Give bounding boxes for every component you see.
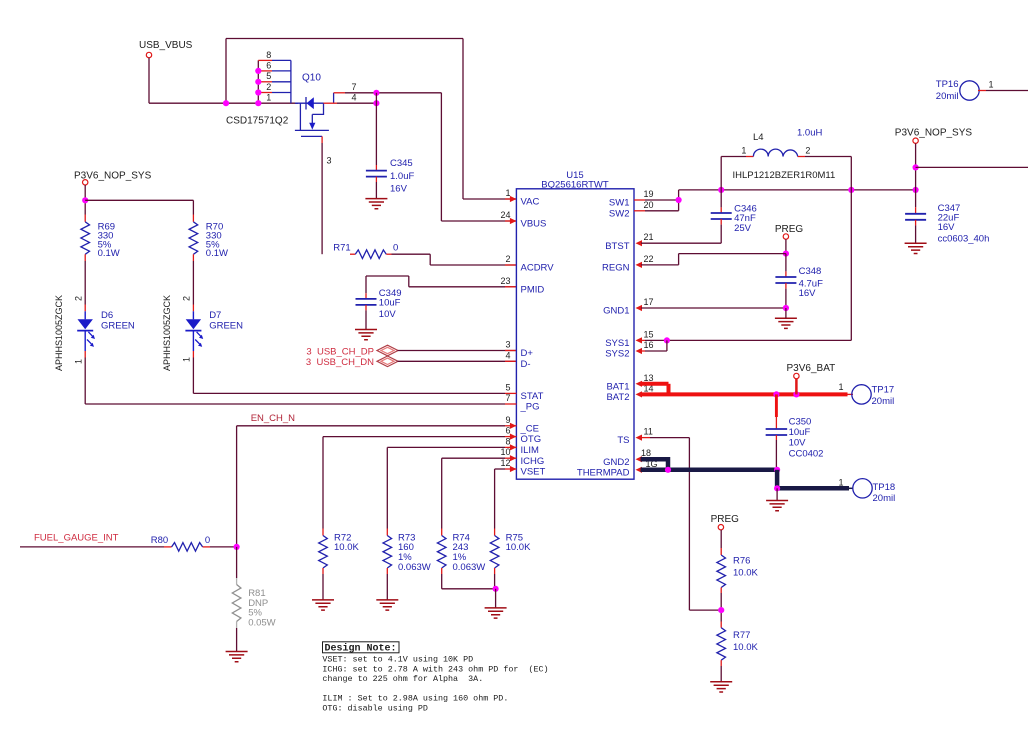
- svg-text:VSET: VSET: [521, 467, 546, 478]
- svg-text:SW2: SW2: [609, 208, 630, 219]
- svg-text:12: 12: [500, 458, 510, 468]
- svg-text:APHHS1005ZGCK: APHHS1005ZGCK: [162, 295, 172, 371]
- svg-text:R80: R80: [151, 535, 168, 546]
- svg-text:10.0K: 10.0K: [506, 542, 531, 553]
- resistor R76: [717, 555, 726, 588]
- svg-text:25V: 25V: [734, 223, 752, 234]
- node junction R80/R81: [234, 544, 240, 550]
- wire BAT1 riser thick: [667, 384, 671, 395]
- svg-text:5: 5: [266, 71, 271, 81]
- wire PREG to REGN node: [785, 239, 787, 253]
- node junction R74/R75 ground: [493, 586, 499, 592]
- wire EN_CH_N drop to R80 node: [236, 426, 238, 547]
- node junction top riser: [223, 100, 229, 106]
- wire TS pin11: [641, 437, 651, 439]
- svg-text:20mil: 20mil: [873, 493, 896, 504]
- svg-text:8: 8: [505, 436, 510, 446]
- svg-text:10uF: 10uF: [789, 427, 811, 438]
- svg-text:P3V6_NOP_SYS: P3V6_NOP_SYS: [895, 127, 973, 138]
- svg-text:USB_VBUS: USB_VBUS: [139, 40, 193, 51]
- wire down to ground: [776, 488, 778, 500]
- svg-text:change to 225 ohm for Alpha 3: change to 225 ohm for Alpha 3A.: [322, 674, 483, 684]
- svg-text:D7: D7: [209, 310, 221, 321]
- capacitor C350: [766, 429, 788, 470]
- svg-text:0: 0: [393, 243, 398, 254]
- svg-text:D-: D-: [521, 359, 531, 370]
- label R69 values: [98, 222, 120, 260]
- test point TP16: [960, 81, 979, 100]
- svg-text:VBUS: VBUS: [521, 219, 547, 230]
- svg-text:0.05W: 0.05W: [248, 617, 275, 628]
- svg-text:16V: 16V: [390, 184, 408, 195]
- svg-text:STAT: STAT: [521, 391, 544, 402]
- label C347 values: [938, 203, 990, 245]
- wire R71 to ACDRV pin2: [392, 253, 431, 255]
- svg-text:THERMPAD: THERMPAD: [577, 467, 630, 478]
- wire PMID to C349: [366, 275, 409, 277]
- node junction LED rail: [82, 197, 88, 203]
- svg-text:PREG: PREG: [775, 224, 804, 235]
- labels U15 right pin numbers: [641, 189, 658, 469]
- svg-text:1: 1: [741, 145, 746, 155]
- svg-text:IHLP1212BZER1R0M11: IHLP1212BZER1R0M11: [733, 170, 836, 181]
- svg-text:ACDRV: ACDRV: [521, 263, 555, 274]
- wire to ground: [495, 589, 497, 608]
- svg-text:_CE: _CE: [520, 423, 539, 434]
- wire SYS1 pin15: [642, 339, 645, 341]
- wire drop to VBUS pin24: [440, 93, 442, 221]
- svg-text:VAC: VAC: [521, 197, 540, 208]
- svg-text:1: 1: [838, 382, 843, 392]
- svg-text:1: 1: [266, 93, 271, 103]
- wire TS to R76/R77 junction: [689, 609, 721, 611]
- svg-text:20mil: 20mil: [872, 396, 895, 407]
- svg-text:SYS2: SYS2: [605, 349, 629, 360]
- wire D7 to STAT pin5: [192, 351, 194, 358]
- svg-text:23: 23: [500, 276, 510, 286]
- svg-text:3 USB_CH_DP: 3 USB_CH_DP: [306, 346, 374, 357]
- resistor R72: [322, 437, 324, 529]
- test point TP17: [852, 385, 871, 404]
- resistor R75: [494, 469, 496, 529]
- node junction SYS: [664, 337, 670, 343]
- ground below C345: [365, 199, 387, 209]
- ground below R73: [376, 600, 398, 610]
- svg-text:1: 1: [505, 188, 510, 198]
- capacitor C348: [775, 254, 796, 308]
- svg-text:11: 11: [644, 427, 653, 437]
- svg-text:2: 2: [182, 296, 192, 301]
- wire FUEL_GAUGE_INT: [20, 546, 164, 548]
- label R76 values: [733, 556, 758, 579]
- svg-text:0: 0: [205, 535, 210, 546]
- wire THERMPAD thick: [641, 468, 778, 473]
- svg-text:3: 3: [505, 340, 510, 350]
- ground below R77: [710, 682, 732, 692]
- wire riser to top rail: [225, 39, 227, 104]
- svg-text:GREEN: GREEN: [209, 321, 243, 332]
- net USB_VBUS power flag: [139, 40, 193, 58]
- labels U15 right pin names: [577, 198, 630, 479]
- wire to TP18 thick: [777, 486, 849, 491]
- svg-text:FUEL_GAUGE_INT: FUEL_GAUGE_INT: [34, 532, 119, 543]
- svg-text:cc0603_40h: cc0603_40h: [938, 233, 990, 244]
- svg-text:7: 7: [351, 82, 356, 92]
- svg-text:10.0K: 10.0K: [733, 642, 758, 653]
- resistor R74: [441, 458, 443, 528]
- wire GND2 riser thick: [666, 457, 671, 470]
- label C345 values: [390, 158, 414, 195]
- ground below R72: [312, 600, 334, 610]
- svg-text:REGN: REGN: [602, 263, 630, 274]
- wire D6 to _PG pin7: [84, 351, 86, 358]
- svg-text:EN_CH_N: EN_CH_N: [251, 413, 295, 424]
- label R75 values: [506, 532, 531, 553]
- off-page connector USB_CH_DN: [377, 356, 398, 367]
- wire R72 to ground: [322, 568, 324, 574]
- svg-text:10.0K: 10.0K: [733, 568, 758, 579]
- wire ILIM pin to resistor: [387, 446, 505, 448]
- svg-text:BAT2: BAT2: [606, 392, 629, 403]
- svg-text:6: 6: [266, 60, 271, 70]
- wire PREG to R76: [720, 530, 722, 548]
- label R74 values: [453, 532, 486, 572]
- label C346 values: [734, 203, 757, 233]
- wire BAT down to C350: [775, 394, 778, 417]
- svg-text:20: 20: [644, 200, 654, 210]
- junction dots BAT node: [773, 391, 779, 397]
- svg-text:6: 6: [505, 426, 510, 436]
- node junction SW: [676, 197, 682, 203]
- wire down to C345: [375, 93, 377, 165]
- ground below C349: [355, 330, 377, 340]
- capacitor C347: [905, 207, 926, 243]
- svg-text:R76: R76: [733, 556, 750, 567]
- svg-text:Q10: Q10: [302, 73, 321, 84]
- svg-text:24: 24: [500, 210, 510, 220]
- wire TP18 stub: [849, 487, 853, 489]
- wire Q10 pin4 lead: [324, 102, 338, 104]
- wire down to R81: [236, 547, 238, 578]
- svg-text:GND2: GND2: [603, 457, 629, 468]
- wire SW riser: [678, 190, 680, 211]
- ground below R81: [226, 652, 248, 662]
- svg-text:C345: C345: [390, 158, 413, 169]
- svg-text:2: 2: [74, 296, 84, 301]
- svg-text:CC0402: CC0402: [789, 449, 824, 460]
- svg-text:10V: 10V: [789, 438, 807, 449]
- wire R75 to ground node: [494, 568, 496, 574]
- svg-text:4: 4: [505, 350, 510, 360]
- wire C346 to BTST pin21: [641, 242, 721, 244]
- svg-text:SW1: SW1: [609, 198, 630, 209]
- wire GND2 pin18 thick: [641, 457, 669, 462]
- label R73 values: [398, 532, 431, 572]
- svg-text:1: 1: [74, 359, 84, 364]
- svg-text:BQ25616RTWT: BQ25616RTWT: [541, 180, 609, 191]
- svg-text:16: 16: [644, 340, 654, 350]
- svg-text:10: 10: [500, 447, 510, 457]
- svg-text:GND1: GND1: [603, 306, 629, 317]
- ground below C347: [905, 243, 927, 253]
- wire P3V6 out to right edge: [916, 166, 1028, 168]
- svg-text:PREG: PREG: [711, 514, 740, 525]
- pin arrows U15 right side: [636, 240, 643, 473]
- wire R73 to ground: [386, 568, 388, 574]
- svg-text:TP17: TP17: [872, 384, 895, 395]
- svg-text:7: 7: [505, 393, 510, 403]
- wire TS drop: [688, 438, 690, 610]
- label R81 values gray: [248, 588, 275, 628]
- svg-text:3 USB_CH_DN: 3 USB_CH_DN: [306, 357, 374, 368]
- wire BAT1 pin13 thick: [641, 382, 669, 386]
- node junction TP18 branch: [774, 485, 780, 491]
- ground below R74/R75: [485, 608, 507, 618]
- wire P3V6 flag down: [915, 143, 917, 207]
- svg-text:2: 2: [805, 145, 810, 155]
- svg-text:5: 5: [505, 382, 510, 392]
- svg-text:0.1W: 0.1W: [206, 248, 228, 259]
- svg-text:15: 15: [644, 329, 654, 339]
- svg-text:ICHG: set to 2.78 A with 243 o: ICHG: set to 2.78 A with 243 ohm PD for …: [322, 664, 548, 674]
- wire LED rail horizontal: [85, 199, 193, 201]
- svg-text:D6: D6: [101, 310, 113, 321]
- svg-text:13: 13: [644, 373, 654, 383]
- capacitor C345: [366, 171, 387, 199]
- wire VAC pin1: [463, 198, 516, 200]
- junction dots node VBUS/C345: [373, 90, 379, 96]
- wire BAT2 pin14 thick: [641, 392, 848, 396]
- node junction R76/R77: [718, 607, 724, 613]
- transistor Q10 pin ladder pins 8 6 5 2 1: [258, 50, 291, 103]
- labels U15 left pin numbers: [500, 188, 510, 468]
- label C348 values: [799, 266, 823, 299]
- svg-text:P3V6_BAT: P3V6_BAT: [787, 363, 836, 374]
- svg-text:1: 1: [182, 357, 192, 362]
- svg-text:ILIM: ILIM: [521, 445, 540, 456]
- wire SW1 pin19: [634, 199, 645, 201]
- inductor L4: [721, 149, 851, 190]
- node junction PREG: [783, 251, 789, 257]
- svg-text:10uF: 10uF: [379, 297, 401, 308]
- svg-text:1: 1: [838, 477, 843, 487]
- wire R77 to ground: [720, 660, 722, 666]
- wire EN_CH_N to _CE pin9: [237, 425, 505, 427]
- svg-text:22: 22: [644, 254, 654, 264]
- svg-text:BAT1: BAT1: [606, 381, 629, 392]
- svg-text:OTG: OTG: [521, 434, 542, 445]
- junction dots SW node: [718, 187, 724, 193]
- svg-text:R71: R71: [333, 243, 350, 254]
- svg-text:16V: 16V: [938, 222, 956, 233]
- svg-text:2: 2: [266, 82, 271, 92]
- resistor R81 DNP gray: [232, 585, 241, 622]
- wire VSET pin to resistor: [495, 468, 505, 470]
- wire TP16 to edge: [978, 90, 986, 92]
- svg-text:21: 21: [644, 232, 654, 242]
- svg-text:18: 18: [641, 448, 651, 458]
- svg-text:OTG: disable using PD: OTG: disable using PD: [322, 704, 428, 714]
- ground below battery node: [766, 501, 788, 511]
- svg-text:C348: C348: [799, 266, 822, 277]
- svg-text:TS: TS: [617, 435, 629, 446]
- wire GND1 pin17: [641, 307, 786, 309]
- svg-text:CSD17571Q2: CSD17571Q2: [226, 116, 289, 127]
- svg-text:3: 3: [327, 156, 332, 166]
- label R77 values: [733, 630, 758, 653]
- wire SW node horizontal: [679, 189, 916, 191]
- svg-text:SYS1: SYS1: [605, 338, 629, 349]
- svg-text:GREEN: GREEN: [101, 321, 135, 332]
- svg-text:Design Note:: Design Note:: [325, 643, 397, 655]
- node junction P3V6 output: [913, 164, 919, 170]
- resistor R80: [172, 543, 203, 552]
- label C349 values: [379, 288, 402, 320]
- wire REGN pin22: [641, 264, 679, 266]
- wire top rail drop to VAC: [462, 39, 464, 200]
- wire ICHG pin to resistor: [442, 457, 505, 459]
- ground below C348: [775, 318, 797, 328]
- wire D+ pin3: [398, 350, 517, 352]
- svg-text:4: 4: [351, 92, 356, 102]
- svg-text:0.063W: 0.063W: [453, 562, 486, 573]
- svg-text:1.0uH: 1.0uH: [797, 128, 822, 139]
- transistor Q10 MOSFET symbol: [295, 97, 329, 136]
- capacitor C346: [711, 190, 732, 243]
- pin arrows U15 left side: [510, 196, 517, 472]
- svg-text:19: 19: [644, 189, 654, 199]
- label R72 values: [334, 532, 359, 553]
- diode D6 LED: [84, 311, 86, 319]
- svg-text:1.0uF: 1.0uF: [390, 171, 414, 182]
- wire R69 to D6: [84, 254, 86, 261]
- svg-text:TP16: TP16: [936, 79, 959, 90]
- wire main rail y=103 to Q10: [149, 102, 298, 104]
- resistor R73: [386, 447, 388, 528]
- svg-text:0.1W: 0.1W: [98, 248, 120, 259]
- svg-text:10V: 10V: [379, 309, 397, 320]
- svg-text:17: 17: [644, 297, 654, 307]
- label C350 values: [789, 417, 824, 460]
- svg-text:D+: D+: [521, 348, 534, 359]
- junction dots Q10 ladder: [255, 68, 261, 74]
- svg-text:APHHS1005ZGCK: APHHS1005ZGCK: [54, 295, 64, 371]
- labels U15 left pin names: [520, 197, 555, 478]
- capacitor C349: [356, 299, 377, 330]
- resistor R77: [720, 622, 722, 628]
- diode D7 LED: [192, 311, 194, 319]
- svg-text:TP18: TP18: [873, 482, 896, 493]
- svg-text:10.0K: 10.0K: [334, 542, 359, 553]
- svg-text:1: 1: [988, 80, 993, 90]
- svg-text:C350: C350: [789, 417, 812, 428]
- wire L4 output drop to SYS: [850, 157, 852, 341]
- wire SW2 pin20: [634, 210, 645, 212]
- wire Q10 gate down to R71: [321, 136, 323, 143]
- wire USB_VBUS vertical to main rail: [148, 58, 150, 103]
- wire R70 to D7: [192, 254, 194, 261]
- design note text: [322, 655, 548, 714]
- junction dots THERMPAD: [665, 467, 671, 473]
- svg-text:2: 2: [505, 254, 510, 264]
- wire SYS2 pin16: [642, 350, 645, 352]
- svg-text:VSET: set to 4.1V using 10K PD: VSET: set to 4.1V using 10K PD: [322, 655, 473, 665]
- svg-text:BTST: BTST: [605, 241, 629, 252]
- svg-text:ILIM : Set to 2.98A using 160: ILIM : Set to 2.98A using 160 ohm PD.: [322, 694, 508, 704]
- wire R80 to junction: [203, 546, 210, 548]
- resistor R70: [192, 200, 194, 214]
- resistor R71: [350, 250, 392, 259]
- wire P3V6_BAT stub: [795, 379, 798, 395]
- wire THERMPAD drop thick: [775, 470, 780, 489]
- svg-text:0.063W: 0.063W: [398, 562, 431, 573]
- node junction GND1: [783, 305, 789, 311]
- resistor R69: [84, 215, 86, 222]
- wire flag down: [84, 185, 86, 215]
- op-amp U15 BQ25616RTWT IC body: [516, 189, 634, 479]
- off-page connector USB_CH_DP: [377, 345, 398, 356]
- wire R74 bottom to R75 node: [441, 568, 443, 574]
- design note box: [323, 642, 400, 653]
- svg-text:R77: R77: [733, 630, 750, 641]
- wire BAT to TP17: [848, 393, 854, 395]
- label R70 values: [206, 222, 228, 260]
- svg-text:9: 9: [505, 415, 510, 425]
- svg-text:_PG: _PG: [520, 402, 540, 413]
- svg-text:16V: 16V: [799, 288, 817, 299]
- wire D- pin4: [398, 360, 517, 362]
- test point TP18: [853, 479, 872, 498]
- wire Q10 pin7 lead: [333, 93, 335, 103]
- svg-text:PMID: PMID: [521, 284, 545, 295]
- svg-text:L4: L4: [753, 132, 764, 143]
- wire R81 to ground: [236, 622, 238, 629]
- wire top rail: [226, 38, 463, 40]
- svg-text:ICHG: ICHG: [521, 456, 545, 467]
- wire OTG pin to resistor: [323, 436, 505, 438]
- wire R76 to junction: [720, 588, 722, 594]
- svg-text:20mil: 20mil: [936, 91, 959, 102]
- svg-text:8: 8: [266, 50, 271, 60]
